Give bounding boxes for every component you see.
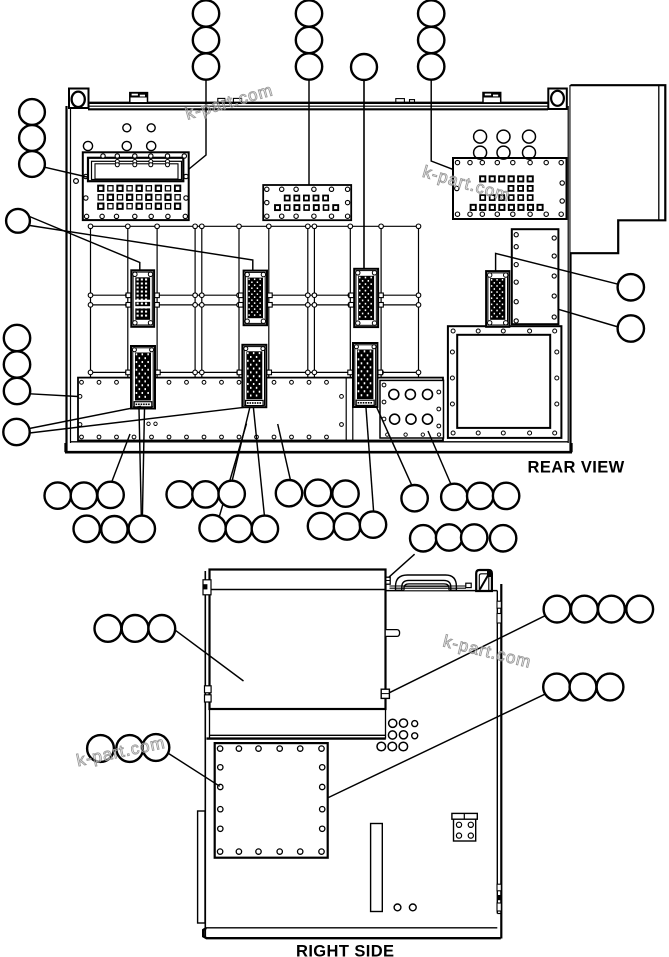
svg-text:REAR VIEW: REAR VIEW (528, 459, 625, 477)
balloon row1 cluster1 (45, 482, 124, 509)
rail attachment pads (126, 293, 384, 375)
corner bracket on cabinet top right (476, 570, 492, 591)
vent holes cluster on side (377, 719, 418, 751)
narrow strip left of side view (198, 811, 205, 923)
connector block upper 1 (131, 270, 154, 327)
svg-text:RIGHT SIDE: RIGHT SIDE (296, 943, 394, 957)
leader from left single balloon to blocks upper 1 and 2 (30, 217, 253, 271)
balloon row2 cluster3 (308, 511, 386, 539)
connector block upper 4 right (486, 271, 509, 327)
small clip on rail d (410, 100, 415, 103)
balloon row2 cluster4 (410, 524, 516, 551)
leader from left chain D to square panel (169, 754, 220, 787)
connector panel top-left with bezel opening (74, 152, 189, 220)
connector panel top-right (453, 158, 567, 219)
clip on flange top (203, 580, 211, 595)
clip on box top-right corner (386, 577, 390, 584)
latch stub on box right edge (386, 630, 400, 637)
connector block upper 2 (244, 271, 267, 326)
connector block upper 3 (354, 269, 378, 327)
leader from top chain 3 to top-right panel (431, 80, 453, 169)
balloon row1 cluster2 (167, 481, 245, 508)
square access panel on side (215, 743, 328, 858)
connector panel top-middle (263, 185, 351, 220)
balloon chain top 2 (296, 0, 322, 79)
clamp tab on top rail right (483, 93, 501, 103)
balloon single left 1 (6, 209, 30, 233)
leader from top chain 1 to top-left panel (189, 80, 206, 169)
leader vent section to balloon row1 right (428, 431, 452, 486)
balloon row2 cluster1 (74, 516, 156, 543)
clamp tab on top rail left (130, 93, 148, 103)
lifting eye box top-left (69, 89, 89, 109)
leader panel to balloon row1 cluster3 (278, 424, 291, 480)
vent circles above top-left panel (83, 124, 155, 151)
balloon row1 cluster3 (276, 480, 359, 507)
leader from block upper 4 to right balloon 1 (496, 253, 618, 284)
vent circles above top-right panel (474, 130, 536, 159)
pair of small holes (394, 904, 416, 911)
leader from balloon row2 right to box clip (389, 554, 415, 577)
balloon chain top 1 (193, 0, 219, 79)
vent hole section with six holes (380, 380, 444, 438)
mounting rail lattice (88, 224, 421, 377)
balloon right 1 (618, 274, 644, 300)
small clip right of handle (466, 583, 471, 587)
large square panel lower-right (448, 326, 562, 438)
balloon single left 2 (3, 419, 29, 445)
balloon chain left 2 (4, 325, 30, 404)
leader panel to balloon row2 cluster2 (219, 424, 247, 518)
side view left flange edge (204, 571, 206, 937)
leader from top single balloon to block upper 3 (363, 80, 365, 269)
small clip on rail b (233, 98, 241, 102)
clips on flange lower (205, 686, 212, 702)
rail behind handle (390, 586, 467, 588)
balloon single top (351, 54, 377, 80)
leader from left chain 1 to top-left panel (45, 167, 88, 177)
balloon chain C left of side view (95, 615, 176, 642)
long lower access panel (78, 378, 443, 441)
hinge bracket on side (452, 813, 477, 841)
connector block lower 1 (131, 346, 155, 409)
balloon chain top 3 (418, 0, 444, 79)
right side protruding housing (571, 85, 666, 253)
connector block lower 3 (353, 343, 377, 407)
leader block lower 2 to balloons (232, 408, 264, 516)
leader from left chain 2 to lower access panel (30, 394, 78, 397)
leader from tall right panel to right balloon 2 (558, 309, 618, 327)
lifting handle on cabinet top (396, 575, 457, 590)
balloon chain B right of side view (543, 674, 623, 701)
clip on box right edge lower (381, 689, 389, 698)
leader panel to balloon row1 cluster1 (112, 434, 131, 483)
narrow slot on side panel (371, 824, 383, 912)
lifting eye box top-right (548, 89, 567, 110)
leader from top chain 2 to top-middle panel (308, 80, 310, 184)
balloon row2 cluster2 (199, 515, 278, 542)
small clip on rail a (218, 98, 225, 102)
connector block lower 2 (242, 345, 266, 407)
rear view cabinet body outline (65, 85, 572, 453)
leader from left chain C into box (175, 630, 243, 681)
leader from box clip to right chain A (389, 615, 546, 693)
leader pair from block lower 1 (139, 409, 145, 516)
balloon chain left 1 (19, 99, 45, 177)
side view front box (207, 570, 386, 739)
side cabinet outline (203, 584, 501, 939)
leader block lower 3 to balloons (366, 407, 412, 512)
tall panel right upper (512, 229, 559, 324)
hinge clips on cabinet right edge (497, 601, 501, 911)
leader from left single balloon 2 to lower blocks (29, 406, 245, 433)
leader from panel to right chain B (329, 694, 545, 797)
balloon chain A right of side view (544, 596, 654, 623)
balloon right 2 (618, 315, 644, 341)
balloon chain D left of side view (87, 734, 169, 762)
balloon row1 cluster4 (441, 483, 519, 510)
small clip on rail c (396, 99, 405, 103)
balloon row1 single (401, 485, 427, 511)
